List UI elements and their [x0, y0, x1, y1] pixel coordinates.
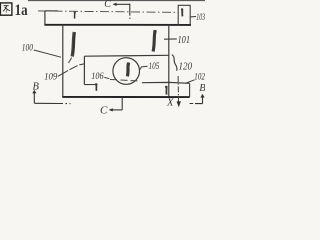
- svg-text:103: 103: [196, 12, 205, 22]
- svg-text:C: C: [104, 0, 111, 10]
- svg-text:109: 109: [44, 73, 57, 83]
- svg-text:105: 105: [149, 62, 160, 72]
- svg-text:X: X: [166, 98, 174, 109]
- svg-text:1a: 1a: [15, 2, 28, 19]
- svg-text:100: 100: [22, 42, 34, 52]
- svg-text:106: 106: [91, 71, 104, 81]
- svg-text:C: C: [100, 104, 108, 116]
- svg-text:120: 120: [179, 61, 193, 72]
- svg-text:B: B: [33, 81, 40, 92]
- svg-text:102: 102: [194, 72, 205, 82]
- svg-text:B: B: [199, 83, 205, 94]
- svg-text:101: 101: [178, 35, 191, 46]
